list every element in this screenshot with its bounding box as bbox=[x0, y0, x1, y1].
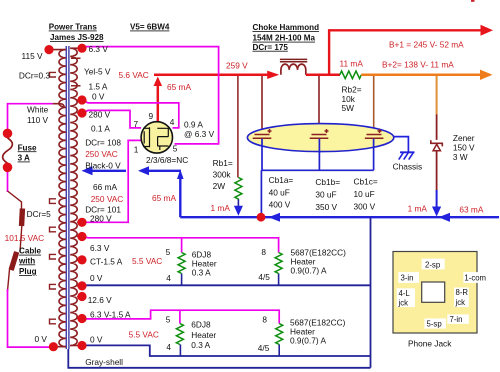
svg-text:4: 4 bbox=[170, 117, 175, 127]
svg-text:0.1 A: 0.1 A bbox=[91, 123, 110, 133]
svg-text:66 mA: 66 mA bbox=[93, 182, 117, 192]
svg-text:4/5: 4/5 bbox=[258, 272, 270, 282]
svg-text:5-sp: 5-sp bbox=[427, 320, 443, 329]
svg-text:Cable: Cable bbox=[19, 247, 42, 256]
svg-text:0.3 A: 0.3 A bbox=[191, 340, 210, 350]
svg-text:5W: 5W bbox=[342, 103, 355, 113]
svg-text:B+2= 138 V- 11 mA: B+2= 138 V- 11 mA bbox=[382, 59, 454, 69]
svg-text:250 VAC: 250 VAC bbox=[91, 194, 124, 204]
svg-text:280 V: 280 V bbox=[90, 214, 112, 224]
svg-text:5: 5 bbox=[173, 144, 178, 154]
svg-text:5: 5 bbox=[166, 247, 171, 257]
svg-text:5.6 VAC: 5.6 VAC bbox=[119, 70, 149, 80]
svg-text:with: with bbox=[18, 256, 35, 265]
svg-text:Heater: Heater bbox=[191, 330, 216, 340]
svg-text:0.9 A: 0.9 A bbox=[184, 120, 203, 130]
svg-text:11 mA: 11 mA bbox=[340, 59, 364, 69]
svg-text:5.5 VAC: 5.5 VAC bbox=[129, 330, 159, 340]
svg-text:9: 9 bbox=[149, 111, 154, 121]
svg-text:Rb1=: Rb1= bbox=[213, 158, 233, 168]
svg-text:Cb1c=: Cb1c= bbox=[354, 177, 378, 187]
svg-text:3-in: 3-in bbox=[401, 274, 414, 283]
svg-text:259 V: 259 V bbox=[226, 61, 248, 71]
svg-text:Cb1a=: Cb1a= bbox=[269, 175, 294, 185]
svg-text:V5= 6BW4: V5= 6BW4 bbox=[130, 23, 170, 32]
svg-text:CT-1.5 A: CT-1.5 A bbox=[90, 257, 123, 267]
svg-text:280 V: 280 V bbox=[89, 110, 111, 120]
svg-text:Fuse: Fuse bbox=[18, 143, 37, 152]
svg-text:1 mA: 1 mA bbox=[211, 203, 231, 213]
svg-text:65 mA: 65 mA bbox=[167, 82, 191, 92]
svg-text:Yel-5 V: Yel-5 V bbox=[84, 67, 111, 77]
svg-text:6.3 V-1.5 A: 6.3 V-1.5 A bbox=[90, 310, 131, 320]
svg-text:3 A: 3 A bbox=[18, 154, 30, 163]
svg-text:4: 4 bbox=[166, 342, 171, 352]
svg-text:8: 8 bbox=[262, 315, 267, 325]
svg-text:1 mA: 1 mA bbox=[408, 204, 428, 214]
svg-text:65 mA: 65 mA bbox=[152, 193, 176, 203]
svg-text:12.6 V: 12.6 V bbox=[88, 295, 112, 305]
svg-text:300k: 300k bbox=[213, 170, 232, 180]
svg-text:@ 6.3 V: @ 6.3 V bbox=[184, 129, 215, 139]
svg-text:2-sp: 2-sp bbox=[425, 260, 441, 269]
svg-text:Gray-shell: Gray-shell bbox=[85, 357, 123, 367]
svg-text:30 uF: 30 uF bbox=[315, 190, 336, 200]
svg-text:110 V: 110 V bbox=[27, 115, 49, 125]
svg-text:101.5 VAC: 101.5 VAC bbox=[5, 233, 45, 243]
svg-text:250 VAC: 250 VAC bbox=[85, 149, 118, 159]
svg-text:350 V: 350 V bbox=[315, 202, 337, 212]
svg-text:8-R: 8-R bbox=[456, 288, 469, 297]
svg-text:154M 2H-100 Ma: 154M 2H-100 Ma bbox=[253, 34, 316, 43]
svg-text:DCr=0.3: DCr=0.3 bbox=[19, 71, 51, 81]
svg-text:1: 1 bbox=[134, 144, 139, 154]
svg-text:6.3 V: 6.3 V bbox=[89, 44, 109, 54]
svg-text:0.3 A: 0.3 A bbox=[192, 267, 211, 277]
svg-text:B+1 = 245 V- 52 mA: B+1 = 245 V- 52 mA bbox=[389, 39, 464, 49]
svg-text:Phone Jack: Phone Jack bbox=[408, 339, 452, 349]
svg-text:0 V: 0 V bbox=[90, 273, 103, 283]
svg-text:3 W: 3 W bbox=[453, 152, 468, 162]
svg-text:0.9(0.7) A: 0.9(0.7) A bbox=[290, 336, 326, 346]
svg-text:DCr=5: DCr=5 bbox=[27, 209, 52, 219]
svg-text:63 mA: 63 mA bbox=[459, 205, 483, 215]
svg-text:10 uF: 10 uF bbox=[354, 189, 375, 199]
svg-text:1.5 A: 1.5 A bbox=[89, 82, 108, 92]
svg-text:5.5 VAC: 5.5 VAC bbox=[132, 256, 162, 266]
svg-text:8: 8 bbox=[261, 247, 266, 257]
svg-text:White: White bbox=[27, 105, 49, 115]
svg-text:2W: 2W bbox=[213, 181, 226, 191]
svg-text:0 V: 0 V bbox=[35, 334, 48, 344]
svg-text:7-in: 7-in bbox=[450, 315, 463, 324]
svg-text:4-L: 4-L bbox=[399, 289, 411, 298]
svg-text:Cb1b=: Cb1b= bbox=[315, 177, 340, 187]
svg-text:300 V: 300 V bbox=[354, 201, 376, 211]
svg-text:James JS-928: James JS-928 bbox=[50, 33, 104, 42]
svg-text:0 V: 0 V bbox=[92, 92, 105, 102]
svg-text:jck: jck bbox=[455, 298, 466, 307]
svg-text:5: 5 bbox=[166, 315, 171, 325]
svg-text:Plug: Plug bbox=[19, 267, 37, 276]
svg-text:115 V: 115 V bbox=[22, 51, 44, 61]
svg-text:jck: jck bbox=[398, 299, 409, 308]
svg-text:1-com: 1-com bbox=[464, 274, 486, 283]
svg-text:Choke Hammond: Choke Hammond bbox=[253, 23, 320, 32]
svg-text:7: 7 bbox=[134, 119, 139, 129]
svg-text:DCr= 108: DCr= 108 bbox=[85, 137, 121, 147]
svg-text:2/3/6/8=NC: 2/3/6/8=NC bbox=[146, 155, 188, 165]
svg-text:40 uF: 40 uF bbox=[269, 188, 290, 198]
svg-text:Power Trans: Power Trans bbox=[49, 23, 98, 32]
svg-text:0.9(0.7) A: 0.9(0.7) A bbox=[291, 266, 327, 276]
svg-text:4: 4 bbox=[166, 273, 171, 283]
svg-text:6DJ8: 6DJ8 bbox=[191, 320, 211, 330]
svg-text:6.3 V: 6.3 V bbox=[90, 243, 110, 253]
svg-text:4/5: 4/5 bbox=[258, 343, 270, 353]
svg-text:DCr= 175: DCr= 175 bbox=[253, 43, 289, 52]
svg-text:0 V: 0 V bbox=[90, 335, 103, 345]
svg-text:Zener: Zener bbox=[453, 133, 475, 143]
svg-text:Black-0 V: Black-0 V bbox=[85, 161, 121, 171]
svg-text:Chassis: Chassis bbox=[393, 162, 423, 172]
svg-text:400 V: 400 V bbox=[269, 200, 291, 210]
